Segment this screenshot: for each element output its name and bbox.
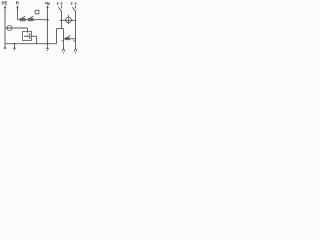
contact K1-1 bottom lead	[61, 11, 63, 29]
contact S2 slash	[66, 35, 70, 38]
electrode E4 tip	[62, 49, 65, 52]
svg-text:PE: PE	[2, 0, 8, 5]
svg-text:Mp: Mp	[45, 1, 51, 5]
lamp H1	[66, 17, 72, 23]
contact pair A circles	[20, 19, 22, 21]
contact pair B slash	[29, 16, 34, 19]
contact K1-2 blade	[72, 7, 75, 11]
wire corner x63.5 down to contact row	[63, 29, 65, 50]
contact K1-1 blade	[58, 7, 61, 11]
contact K1-2 bottom lead long rail	[75, 11, 77, 49]
junction dot at Mp rail	[46, 19, 48, 21]
wire horizontal y28 from PE through B1 to corner	[5, 27, 28, 29]
junction dot bus-Mp	[47, 43, 49, 45]
wire bottom bus y43.7	[5, 43, 57, 45]
svg-text:R: R	[16, 0, 19, 5]
tick on E5 stem	[73, 40, 75, 42]
K1 inner arrow	[24, 35, 27, 37]
wire corner drop x27.5 into box	[27, 28, 29, 32]
electrode E3 tip under Mp	[46, 46, 49, 49]
contact K1-1 labels	[57, 2, 59, 4]
bell B1 circle on PE tap	[7, 26, 12, 31]
contact K1-1 top lead	[61, 6, 63, 9]
wire drop x36.5 to bus	[36, 36, 38, 44]
wire horizontal y28.6	[57, 28, 64, 30]
wire K1 right lead	[32, 35, 37, 37]
wire contact row y19.7 R to Mp	[18, 19, 48, 21]
K1 inner bar	[29, 34, 31, 39]
wire R vertical drop x17.5	[17, 7, 19, 20]
terminal arrow Mp	[46, 5, 48, 8]
lamp H1 left lead with tick	[60, 19, 76, 21]
electrode E1 stem and tip	[4, 44, 6, 47]
designator frame above contact B	[35, 10, 39, 14]
tick on E4 stem	[62, 40, 64, 42]
terminal arrow R	[16, 5, 18, 8]
junction dot bus-E2	[14, 43, 16, 45]
electrode E5 tip	[74, 49, 77, 52]
wire contact row y38.8	[64, 38, 76, 40]
contact K1-2 top lead	[75, 6, 77, 9]
contact pair A slash	[21, 16, 26, 19]
contact K1-2 labels	[71, 2, 73, 4]
electrode E2 stem and tip	[14, 44, 16, 47]
K1 top lead interior stub	[27, 32, 29, 34]
wire Mp vertical rail x47.5	[47, 7, 49, 47]
relay box K1	[23, 32, 32, 41]
wire PE vertical rail x5	[4, 7, 6, 44]
contact S2 circles	[65, 38, 67, 40]
wire right riser x56.5	[56, 29, 58, 44]
terminal arrow PE	[4, 5, 6, 8]
contact pair B circles	[28, 19, 30, 21]
